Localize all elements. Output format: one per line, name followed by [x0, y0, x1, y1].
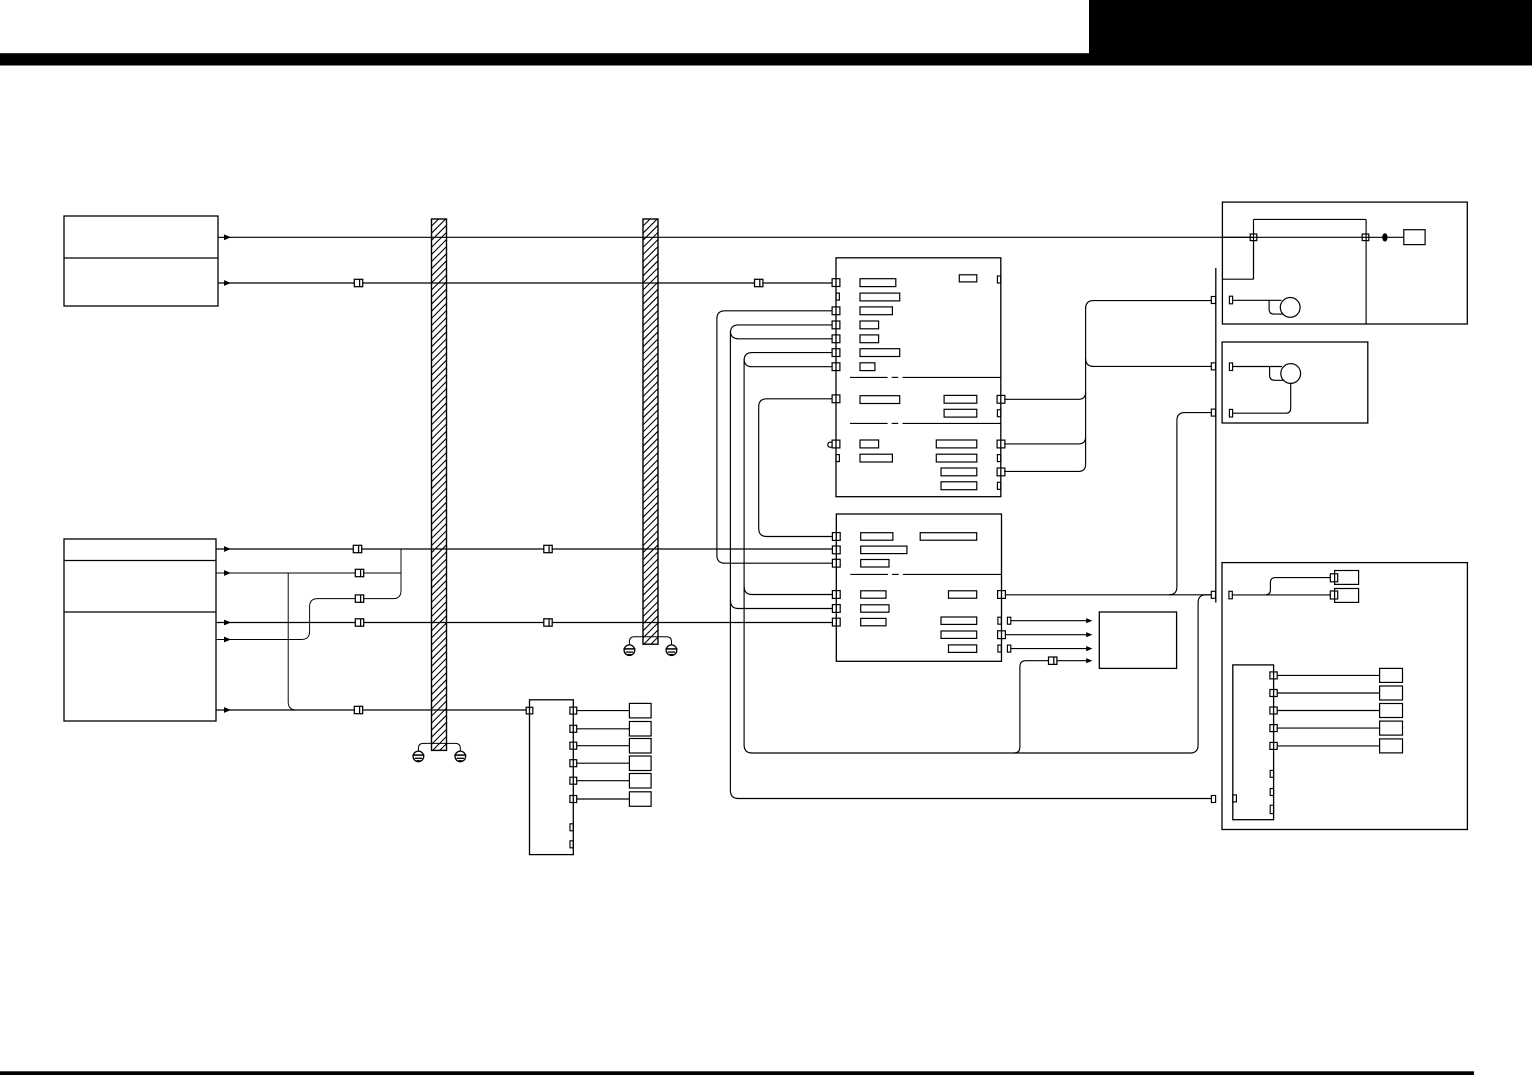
connector on B6	[354, 706, 362, 713]
ground G1	[412, 751, 424, 762]
J pin 4	[570, 760, 577, 767]
ground G4	[666, 645, 678, 656]
wire riser x1177 to w412	[1169, 413, 1212, 595]
box: antenna element	[1404, 230, 1425, 245]
CD wire 5	[1277, 745, 1379, 747]
C pin 595	[1211, 591, 1215, 598]
wire down-left exit	[1253, 240, 1255, 279]
U1 label bot-l1	[860, 440, 879, 448]
U2 right half-pin 648	[998, 645, 1001, 652]
wire vC branch p367	[744, 359, 832, 367]
U2 detached pin 648	[1007, 645, 1010, 652]
U1 label mid-left	[860, 396, 900, 404]
box: rear door speaker unit	[1222, 342, 1368, 423]
U1 left pin 4	[832, 335, 840, 343]
connector on B1 (2nd)	[544, 545, 552, 552]
arrow B2	[224, 570, 231, 576]
U1 label 6	[860, 349, 900, 357]
arrow B1	[224, 546, 231, 552]
wire vC branch U2p594	[744, 587, 833, 595]
wire vB branch p339	[730, 331, 832, 339]
box: J plug 2	[629, 722, 651, 737]
U1 right half-pin 458	[997, 455, 1000, 462]
U2 label r3	[941, 631, 977, 638]
CD wire 1	[1277, 674, 1379, 676]
U2 detached pin 620	[1007, 617, 1010, 624]
harness bar A	[431, 203, 448, 781]
wire arrow line 648	[1011, 648, 1086, 650]
U2 label r2	[941, 617, 977, 624]
wire vB U1p325 down to y798.5	[730, 325, 1211, 799]
CD pin 2	[1270, 690, 1277, 697]
U1 label bot-r1	[936, 440, 977, 448]
U1 right pin 472	[997, 468, 1005, 476]
wire vert x1085	[1085, 307, 1087, 465]
box divider	[64, 611, 216, 613]
J wire 2	[577, 728, 630, 730]
CD pin 4	[1270, 725, 1277, 732]
speaker1 coil hook	[1269, 300, 1283, 314]
inner divider right	[1365, 219, 1367, 324]
J wire 5	[577, 780, 630, 782]
box divider	[64, 257, 218, 259]
wire U1p399 stub	[1004, 392, 1085, 399]
wire vA U1p310 to U2p563	[717, 311, 833, 563]
box: amplifier	[1099, 612, 1176, 668]
U2 left pin 3	[832, 559, 840, 567]
wire branch w366 to speaker2	[1086, 358, 1212, 366]
U1 left pin 1	[832, 279, 840, 287]
wire branch x288	[288, 573, 296, 710]
U1 label bot-l2	[860, 454, 892, 462]
U2 label 5	[861, 605, 889, 612]
U1 left pin 8	[832, 440, 840, 448]
CD pin 5	[1270, 742, 1277, 749]
arrow into amp 635	[1086, 632, 1092, 637]
harness bar B	[642, 203, 659, 674]
connector on T2	[354, 279, 362, 286]
CD wire 3	[1277, 710, 1379, 712]
pin on loop left	[1250, 234, 1257, 241]
box: audio unit U2	[836, 514, 1001, 661]
arrow B4	[224, 620, 231, 626]
U1 label 1	[860, 279, 896, 287]
C pin 799 (separate)	[1211, 796, 1215, 803]
J wire 3	[577, 745, 630, 747]
box: CD plug 3	[1380, 704, 1403, 718]
speaker2 wire b	[1233, 383, 1291, 413]
box: audio unit U1	[836, 258, 1001, 497]
connector on B1	[353, 545, 361, 552]
U1 label top-right	[959, 275, 977, 282]
box: CD changer connector	[1233, 665, 1274, 820]
speaker2 wire a	[1233, 366, 1282, 368]
wire B5+B3 (bend to y598.6) and riser	[216, 549, 401, 640]
arrow T2	[224, 280, 231, 286]
connector on B4 (2nd)	[544, 619, 552, 626]
C pin 366	[1211, 363, 1215, 370]
wire y237 inside	[1222, 236, 1403, 238]
CD pin 1	[1270, 672, 1277, 679]
wire B2 (y573)	[216, 572, 401, 574]
box: front door speaker unit	[1222, 202, 1467, 324]
wire T1 (y237)	[218, 236, 1254, 238]
C pin 300	[1211, 297, 1215, 304]
header title block	[1089, 0, 1532, 66]
ground G3	[623, 645, 635, 656]
box: J plug 6	[629, 792, 651, 807]
junction dot	[1382, 233, 1387, 241]
wire B4 (y622.5)	[216, 622, 833, 624]
U2 label 3	[861, 560, 889, 568]
C pin 412	[1211, 409, 1215, 416]
box: junction connector	[530, 700, 574, 855]
U2 label 1	[861, 533, 893, 541]
wire w300 to speaker1	[1086, 301, 1212, 309]
header rule bar	[0, 53, 1532, 65]
wire U1p472 stub	[1004, 464, 1085, 471]
box: power source (top left)	[64, 216, 218, 306]
U2 divider (dash-dot)	[850, 573, 1001, 575]
U2 left pin 1	[832, 533, 840, 541]
U2 label r1	[949, 591, 977, 598]
box: CD plug 5	[1380, 739, 1403, 753]
connector on B2	[355, 569, 363, 576]
B3 wire branch up	[1265, 578, 1330, 595]
wire vB branch U2p608	[730, 601, 832, 609]
J left pin	[526, 707, 533, 714]
box divider	[64, 560, 216, 562]
U1 label mid-r1	[944, 395, 977, 403]
U2 label 6	[861, 618, 886, 625]
box: J plug 5	[629, 774, 651, 789]
CD half-pin b	[1270, 789, 1273, 796]
wire w594 to connector	[1005, 594, 1211, 596]
box: rear unit	[1222, 563, 1467, 830]
connector line C	[1215, 268, 1217, 603]
CD half-pin c	[1270, 805, 1273, 813]
CD left half-pin	[1233, 795, 1237, 802]
B3 tweeter pin lower	[1330, 591, 1337, 599]
wire vD U1p399 to U2p536	[759, 399, 833, 537]
connector on T2 (2nd)	[755, 279, 763, 286]
U2 right pin 635	[998, 631, 1006, 639]
U2 right half-pin 620	[998, 617, 1001, 624]
U1 label bot-r3	[941, 468, 977, 476]
wire B6 (y710)	[216, 709, 526, 711]
CD wire 2	[1277, 692, 1379, 694]
arrow B5	[224, 637, 231, 643]
arrow into amp 648	[1086, 646, 1092, 651]
wire arrow line 635	[1005, 634, 1086, 636]
box: J plug 1	[629, 703, 651, 718]
J pin 1	[570, 707, 577, 714]
connector on B3	[355, 595, 363, 602]
U1 label 5	[860, 335, 879, 343]
box: tweeter lower	[1335, 589, 1359, 603]
CD pin 3	[1270, 707, 1277, 714]
J wire 4	[577, 762, 630, 764]
U2 label 2	[861, 546, 907, 554]
speaker2 pin b	[1229, 409, 1232, 417]
U2 left pin 6	[832, 618, 840, 626]
arrow into amp 620	[1086, 618, 1092, 623]
wire U1p444 stub	[1004, 437, 1085, 444]
wire T2 (y283)	[218, 282, 832, 284]
U2 label 1b	[920, 533, 977, 541]
B3 wire main	[1232, 594, 1331, 596]
U1 left pin 3	[832, 321, 840, 329]
wire arrow line 620	[1011, 620, 1086, 622]
box: J plug 3	[629, 739, 651, 754]
U1 label bot-r4	[941, 482, 977, 490]
U1 right half-pin 486	[997, 482, 1000, 489]
wire vE riser to arrow line 660	[1014, 661, 1087, 753]
U1 left pin 7	[832, 395, 840, 403]
pin on loop right	[1362, 234, 1369, 241]
J wire 6	[577, 798, 630, 800]
J pin 6	[570, 796, 577, 803]
U1 divider 2 (dash-dot)	[850, 422, 1001, 424]
J wire 1	[577, 710, 630, 712]
U2 label 4	[861, 591, 886, 598]
CD half-pin a	[1270, 770, 1273, 777]
CD wire 4	[1277, 727, 1379, 729]
J half-pin b	[570, 841, 573, 848]
U1 label mid-r2	[944, 409, 977, 417]
U1 right half-pin top	[997, 276, 1000, 283]
connector on arrow line 660	[1049, 657, 1057, 664]
speaker1	[1280, 298, 1300, 318]
box: control unit (bottom left)	[64, 539, 216, 721]
U1 right half-pin 413	[997, 410, 1000, 417]
speaker1 wire	[1233, 299, 1282, 301]
U1 left half-pin a	[836, 293, 839, 300]
U1 label 7	[860, 363, 875, 371]
box: J plug 4	[629, 756, 651, 771]
speaker1 pin	[1229, 296, 1232, 304]
U1 left pin 2	[832, 307, 840, 315]
speaker2 pin a	[1229, 363, 1232, 371]
footer rule	[0, 1071, 1474, 1075]
wire: bar B ground strap	[629, 637, 671, 645]
U2 left pin 5	[832, 605, 840, 613]
speaker2	[1281, 364, 1301, 384]
arrow into amp 660	[1086, 658, 1092, 663]
inner wire loop top	[1254, 218, 1367, 220]
speaker2 coil hook	[1270, 367, 1284, 381]
U1 right pin 399	[997, 395, 1005, 403]
box: CD plug 1	[1380, 668, 1403, 682]
wire vC U1p353 down to y753 over to connector	[744, 353, 1211, 753]
J pin 2	[570, 725, 577, 732]
J pin 3	[570, 742, 577, 749]
U2 left pin 2	[832, 546, 840, 554]
arrow T1	[224, 234, 231, 240]
B3 inner pin	[1229, 591, 1232, 599]
U1 label 2	[860, 293, 900, 301]
J pin 5	[570, 777, 577, 784]
U1 label 3	[860, 307, 892, 315]
inner wire left	[1253, 219, 1255, 279]
U1 left pin 6	[832, 363, 840, 371]
U1 label bot-r2	[936, 454, 977, 462]
wire B1 (y549)	[216, 548, 833, 550]
U1 left half-pin b	[836, 455, 839, 462]
arrow B6	[224, 707, 231, 713]
U1 label 4	[860, 321, 879, 329]
U1 left pin 5	[832, 349, 840, 357]
B3 tweeter pin upper	[1330, 574, 1337, 582]
U2 left pin 4	[832, 591, 840, 599]
wire: bar A ground strap	[418, 743, 460, 751]
ground G2	[454, 751, 466, 762]
box: CD plug 2	[1380, 686, 1403, 700]
U2 right pin 594	[998, 591, 1006, 599]
U1 divider 1 (dash-dot)	[850, 376, 1001, 378]
box: CD plug 4	[1380, 721, 1403, 735]
J half-pin a	[570, 824, 573, 831]
box: tweeter upper	[1335, 571, 1359, 585]
connector on B4	[355, 619, 363, 626]
U1 pin cap	[828, 442, 832, 447]
U1 right pin 444	[997, 440, 1005, 448]
U2 label r4	[949, 645, 977, 653]
